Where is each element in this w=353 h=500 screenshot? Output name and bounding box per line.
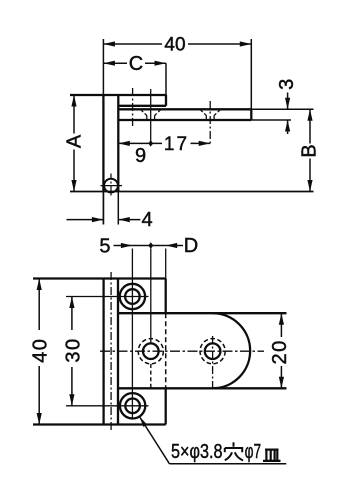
diamond node at x=150.8	[148, 242, 153, 248]
pivot hole vertical centerline	[110, 174, 112, 197]
svg-text:40: 40	[164, 34, 185, 55]
extension: plate right edge above figure	[165, 249, 167, 279]
bracket upper strip bottom line	[118, 105, 166, 107]
dim B (right vertical)	[309, 109, 311, 143]
svg-text:φ7: φ7	[245, 441, 262, 463]
svg-text:30: 30	[63, 337, 85, 362]
dim C	[103, 62, 166, 64]
mid-left hole: inner hole (solid)	[143, 343, 159, 359]
svg-text:4: 4	[141, 209, 152, 231]
plate outline: top edge + 40 ext	[33, 277, 166, 279]
svg-text:C: C	[129, 53, 143, 75]
bottom hole: inner hole	[125, 399, 140, 414]
svg-text:5: 5	[99, 236, 110, 258]
leader underline below note	[170, 463, 287, 465]
svg-text:9: 9	[135, 145, 146, 167]
svg-text:17: 17	[164, 134, 189, 155]
bracket leg right edge	[117, 95, 119, 192]
tongue plate top line (side view)	[118, 108, 251, 110]
kanji ana (hole) drawn as strokes	[225, 442, 243, 460]
hidden line below mid-left hole	[150, 364, 152, 389]
bracket upper strip right step edge	[165, 95, 167, 106]
extension: mid-left hole centerline down through mid hole	[150, 249, 152, 345]
tongue (front view) top line + 20 ext	[118, 312, 287, 314]
plate right edge: solid top part	[165, 279, 167, 314]
top hole: countersink outer ring	[120, 284, 145, 309]
note text: 5 x phi3.8 hole phi7 countersink	[171, 441, 281, 463]
svg-text:B: B	[299, 144, 321, 157]
top hole horizontal centerline + 30 ext	[66, 296, 149, 298]
tongue plate bottom line (side view)	[118, 119, 251, 121]
leader line to note (diagonal)	[139, 417, 169, 464]
leg centerline (dash-dot x=111.1)	[110, 272, 112, 430]
extension: back hole column centerline down through top hole	[131, 249, 133, 420]
leg fold line (solid, x=118)	[117, 279, 119, 425]
middle horizontal centerline (dash-dot)	[100, 350, 264, 352]
plate left edge	[102, 279, 104, 425]
svg-text:3: 3	[276, 79, 298, 90]
dim 40 (top)	[103, 43, 251, 45]
wire: right extension line of 40-dim (x=251.3)	[250, 39, 252, 120]
tongue right end face	[250, 109, 252, 120]
countersink centerline x=150.7	[150, 89, 152, 143]
mid-right hole vertical centerline	[212, 336, 214, 389]
svg-text:5×φ3.8: 5×φ3.8	[171, 441, 223, 463]
dim 3 (right, plate thickness)	[251, 108, 313, 110]
tongue bottom line + 20 ext	[118, 387, 287, 389]
bracket upper strip top line incl. A extension	[70, 94, 166, 96]
centerline back-hole column (x=132.6)	[132, 88, 134, 128]
pivot hole horizontal centerline	[101, 185, 123, 187]
dim 5 / D line	[114, 245, 133, 247]
svg-text:D: D	[184, 235, 198, 257]
dim A (left vertical)	[73, 95, 75, 134]
bottom hole horizontal centerline + 30 ext	[66, 405, 149, 407]
mid-right hole: inner hole (solid)	[205, 343, 221, 359]
svg-text:40: 40	[29, 338, 51, 363]
pivot hole circle at leg bottom	[104, 179, 118, 193]
mid-left hole: hidden countersink ring (dashed)	[138, 339, 163, 364]
top hole: inner hole	[125, 289, 140, 304]
dim 20 (right vertical)	[280, 313, 282, 337]
wire: left extension line + leg left edge (x=103.4)	[102, 39, 104, 225]
svg-text:20: 20	[269, 339, 291, 364]
svg-text:A: A	[64, 134, 86, 148]
tongue rounded end (semicircle r=37.55)	[213, 313, 251, 388]
countersink V at x=210.2 (dashed)	[200, 109, 221, 120]
dim 4 (leg thickness, below)	[102, 192, 104, 225]
plate right edge: solid bottom part	[165, 388, 167, 424]
plate right edge: hidden (dashed) behind tongue	[165, 313, 167, 388]
bottom long extension line (leg bottom, A-ext, B-ext)	[70, 191, 314, 193]
countersink centerline x=210.2	[209, 101, 211, 143]
dim 30 (inner left vertical)	[71, 297, 73, 331]
dim 40 (left vertical)	[38, 279, 40, 331]
kanji sara (dish) drawn as strokes	[263, 450, 281, 461]
dim 9 / 17 line	[118, 142, 162, 144]
countersink V at x=150.7 (dashed)	[140, 109, 161, 120]
leader arrowhead at hole	[139, 417, 147, 428]
bottom hole: countersink outer ring	[120, 393, 145, 418]
plate outline: bottom edge + 40 ext	[33, 423, 166, 425]
wire: C right extension line down to step corner	[165, 63, 167, 95]
diamond node at x=150.7	[148, 140, 153, 146]
bracket leg left edge	[102, 95, 104, 192]
mid-right hole: hidden countersink ring (dashed)	[200, 339, 225, 364]
